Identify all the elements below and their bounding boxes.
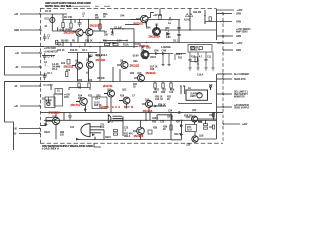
red type labels xyxy=(49,21,161,138)
svg-text:C25 A: C25 A xyxy=(152,117,159,120)
svg-text:2N2102A: 2N2102A xyxy=(149,34,161,38)
transistor Q17 xyxy=(192,116,198,122)
wire QA emitter xyxy=(85,105,87,112)
svg-text:A2: A2 xyxy=(111,34,115,37)
capacitor C8 xyxy=(177,28,180,29)
svg-text:+20: +20 xyxy=(13,129,18,131)
wire base bus y31 xyxy=(52,27,76,31)
delta symbol A1 xyxy=(169,17,172,20)
wire Q17 to B4 xyxy=(194,122,197,136)
transistor Q18 xyxy=(192,136,198,142)
svg-text:CR15: CR15 xyxy=(167,117,174,119)
svg-text:10K: 10K xyxy=(104,35,109,37)
svg-text:2N2905A: 2N2905A xyxy=(49,111,61,115)
wire left loop upper xyxy=(5,47,45,76)
svg-text:R13 2K: R13 2K xyxy=(70,50,78,52)
capacitor C11 xyxy=(205,52,208,68)
svg-text:680: 680 xyxy=(95,17,100,19)
svg-text:ALL CURRENT: ALL CURRENT xyxy=(234,73,250,76)
wire x56 base xyxy=(55,112,57,117)
svg-text:-20: -20 xyxy=(15,67,19,69)
wire drops bottom card xyxy=(64,112,150,120)
transistor Q2 xyxy=(86,29,93,36)
wire x184.7 vertical xyxy=(184,86,186,90)
svg-text:R29: R29 xyxy=(153,92,158,94)
svg-text:.1: .1 xyxy=(82,16,85,18)
svg-text:Q20: Q20 xyxy=(52,117,57,119)
svg-text:A SENSE: A SENSE xyxy=(161,46,171,49)
resistor R13b base feed xyxy=(67,60,70,65)
wire Q18 right xyxy=(198,124,216,139)
transistor Q12 xyxy=(119,97,130,104)
wire Q15 pins vertical xyxy=(122,116,124,121)
svg-text:R12 1K: R12 1K xyxy=(57,50,65,52)
svg-text:S1: S1 xyxy=(57,91,61,93)
svg-text:GRN: GRN xyxy=(236,22,241,24)
wire bus y112 xyxy=(41,111,224,113)
ground G3 xyxy=(205,68,208,70)
svg-text:+28: +28 xyxy=(14,14,19,16)
box B4 relay xyxy=(186,125,197,132)
resistor x171 lower xyxy=(170,125,172,130)
transistor Q14 xyxy=(46,117,60,124)
wire x134 vertical xyxy=(133,29,135,48)
svg-text:CR8: CR8 xyxy=(162,50,167,52)
svg-text:R16 2: R16 2 xyxy=(176,54,183,56)
svg-text:Q10: Q10 xyxy=(137,73,142,75)
resistor R6 small xyxy=(56,40,58,44)
wire resistor drop x155 xyxy=(154,82,156,91)
resistor x63 top xyxy=(62,23,64,28)
wire diode row y53.5 xyxy=(148,53,186,55)
wire x160 top component xyxy=(159,9,161,15)
wire y87.5 link xyxy=(69,88,90,91)
input labels left xyxy=(13,14,20,136)
svg-text:Q12: Q12 xyxy=(122,90,127,92)
diode QA emitter xyxy=(84,108,87,111)
svg-text:2N404A: 2N404A xyxy=(146,71,156,75)
wire resistor drop x163 xyxy=(162,82,164,91)
transistor Q16 D-can power xyxy=(81,124,104,140)
wire x75 drop top xyxy=(74,20,76,24)
svg-text:C21: C21 xyxy=(70,127,75,129)
wire x146 mid vertical xyxy=(145,112,147,120)
resistor R12 xyxy=(66,72,68,77)
svg-text:RTN: RTN xyxy=(46,103,51,105)
svg-text:R32 A: R32 A xyxy=(124,135,131,138)
wire vertical x205 top xyxy=(204,10,206,23)
svg-text:C30: C30 xyxy=(186,145,191,147)
wire bus y139.5 xyxy=(76,139,171,141)
small value labels xyxy=(42,11,214,147)
resistor R23 xyxy=(88,83,90,88)
diode CR5 xyxy=(142,45,146,48)
svg-text:+20: +20 xyxy=(15,53,20,55)
transistor Q7 xyxy=(72,62,83,69)
resistor inside B3 xyxy=(191,47,195,50)
wire input stub y133.5 xyxy=(19,133,41,135)
svg-text:6.2V: 6.2V xyxy=(166,37,171,39)
wire bus y24.5 short xyxy=(125,24,139,26)
wire input stub y30 xyxy=(20,29,42,31)
svg-text:2N1132: 2N1132 xyxy=(96,58,106,62)
wire input stub y67 xyxy=(21,66,42,68)
wire vertical x179 card1 xyxy=(178,20,180,43)
tick marks connector pins xyxy=(40,13,42,135)
svg-text:C13 .01: C13 .01 xyxy=(155,99,164,101)
svg-text:1K: 1K xyxy=(133,86,136,88)
title rule line xyxy=(67,5,110,7)
svg-text:CR5: CR5 xyxy=(96,96,101,98)
svg-text:C8 .1: C8 .1 xyxy=(173,41,179,43)
wire output stub y79 xyxy=(217,78,232,80)
wire y61 link xyxy=(190,61,198,63)
svg-text:R37: R37 xyxy=(176,122,181,124)
svg-text:R6 680: R6 680 xyxy=(61,41,69,43)
card 1 dashed top border xyxy=(40,8,216,10)
svg-text:CR3: CR3 xyxy=(88,56,93,58)
wire Q14 base left xyxy=(46,118,52,123)
svg-text:A1: A1 xyxy=(168,22,172,25)
svg-text:R10 2W: R10 2W xyxy=(193,12,202,14)
test point TP1 xyxy=(210,86,212,90)
wire output stub y43 xyxy=(217,42,233,44)
wire rect top y114.8 xyxy=(157,115,172,121)
diode CR19 xyxy=(76,138,79,141)
wire links y42-y46 xyxy=(63,43,85,47)
wire resistor drop x171 xyxy=(170,82,172,91)
svg-text:2K: 2K xyxy=(167,99,170,101)
capacitor C10 xyxy=(189,52,192,68)
capacitor C2 xyxy=(78,20,82,28)
wire bus y30 right xyxy=(161,29,216,31)
resistor R41 xyxy=(204,127,208,129)
wire vertical x71 xyxy=(70,20,72,32)
svg-text:R26 5K: R26 5K xyxy=(94,105,102,107)
svg-text:C5 .1: C5 .1 xyxy=(47,73,53,75)
svg-text:A2 A3: A2 A3 xyxy=(184,19,191,22)
svg-text:+20: +20 xyxy=(14,106,19,108)
resistor R5 xyxy=(99,24,101,29)
wire y27.5 xyxy=(110,28,134,30)
svg-text:A2: A2 xyxy=(86,72,90,75)
wire x112.5 drop xyxy=(112,29,114,34)
diode CR20 xyxy=(92,134,95,137)
svg-text:R12: R12 xyxy=(66,70,71,72)
svg-text:R36: R36 xyxy=(153,128,158,130)
svg-text:+28V: +28V xyxy=(237,10,243,12)
resistor R10 on bus xyxy=(105,43,110,45)
diode CR8 xyxy=(162,52,166,55)
wire Q7 drop xyxy=(77,69,79,82)
svg-text:R20: R20 xyxy=(130,73,135,75)
ground G2 xyxy=(197,68,200,70)
svg-text:R10 1K: R10 1K xyxy=(85,41,93,43)
svg-text:SENS RTN: SENS RTN xyxy=(234,79,246,81)
svg-text:CR7A: CR7A xyxy=(150,56,157,59)
wire input stub y53 xyxy=(21,52,42,54)
wire Q19 top xyxy=(140,120,142,127)
svg-text:C7: C7 xyxy=(132,96,136,98)
transistor Q13 xyxy=(142,101,153,108)
svg-text:+28 VAC: +28 VAC xyxy=(153,14,162,17)
transistor QA xyxy=(76,98,87,106)
box B1 bias network xyxy=(45,97,55,108)
svg-text:Q9A: Q9A xyxy=(133,60,138,63)
wire x184 meter feeds xyxy=(181,90,185,94)
svg-text:2.2K: 2.2K xyxy=(117,41,122,43)
resistor x160 top xyxy=(159,15,161,20)
B1 internal tick xyxy=(45,97,52,102)
svg-text:0.1 OHM: 0.1 OHM xyxy=(44,85,53,87)
svg-text:.1: .1 xyxy=(44,65,47,67)
wire right vertical x217 lower xyxy=(216,74,218,124)
wire bus y46.5 xyxy=(5,46,139,48)
svg-text:T.P.: T.P. xyxy=(209,85,213,87)
svg-text:R21: R21 xyxy=(178,58,183,60)
svg-text:2N1304: 2N1304 xyxy=(134,134,144,138)
wire bottom bracket x94 xyxy=(94,143,101,147)
wire diode column x181.5 xyxy=(171,120,182,140)
wire y55 stub xyxy=(42,55,55,57)
wire output stub y107 xyxy=(217,106,232,108)
diodes xyxy=(45,14,193,141)
svg-text:SENS SUPPLY: SENS SUPPLY xyxy=(234,108,250,110)
wire Q19 bottom xyxy=(140,135,142,140)
card dashed left border xyxy=(40,9,42,144)
svg-text:-20.6V: -20.6V xyxy=(132,56,139,58)
wire y40.5 xyxy=(103,40,127,42)
svg-text:220: 220 xyxy=(60,135,65,137)
wire vertical x52.3 lamp feed xyxy=(51,14,53,31)
transistor Q4 top xyxy=(136,15,148,22)
wire Q16 pins to bus xyxy=(103,130,105,140)
svg-text:-20: -20 xyxy=(14,86,18,88)
capacitor C9 xyxy=(177,35,180,36)
svg-text:GRN: GRN xyxy=(236,36,241,38)
svg-text:A1: A1 xyxy=(45,25,49,28)
svg-text:2N1711: 2N1711 xyxy=(71,103,81,107)
wire input stub y106 xyxy=(20,105,41,107)
svg-text:2N1711: 2N1711 xyxy=(103,84,113,88)
svg-text:2K: 2K xyxy=(163,129,166,131)
svg-text:+0.05 OHM: +0.05 OHM xyxy=(59,29,71,31)
svg-text:2N1132: 2N1132 xyxy=(130,64,140,68)
svg-text:Q13: Q13 xyxy=(145,100,150,102)
transistor Q1 xyxy=(73,29,86,36)
svg-text:R30: R30 xyxy=(161,92,166,94)
svg-text:.1: .1 xyxy=(47,38,50,40)
diode CR15 xyxy=(179,111,183,114)
wire bus y81.5 xyxy=(5,81,217,83)
capacitor C5 xyxy=(43,73,46,81)
wire Q4 right corner xyxy=(148,13,154,18)
svg-text:Q5: Q5 xyxy=(155,25,159,27)
svg-text:CR22: CR22 xyxy=(44,132,51,134)
wire Q5 top xyxy=(146,20,157,28)
svg-text:+R 300: +R 300 xyxy=(108,43,116,45)
svg-text:R2 1.5K: R2 1.5K xyxy=(64,17,73,19)
box B3 sense resistor xyxy=(188,45,212,53)
resistor x163 xyxy=(162,83,164,88)
wire x181 vertical xyxy=(180,86,182,90)
transistor Q5 power xyxy=(153,28,161,36)
wire Q8 top feed xyxy=(88,53,90,62)
resistor R19 drop xyxy=(197,52,199,68)
svg-text:C6 .1: C6 .1 xyxy=(82,50,88,52)
svg-text:C4A: C4A xyxy=(120,15,125,18)
diode CR3 xyxy=(89,55,93,58)
zener VR2 xyxy=(167,30,170,38)
svg-text:C25: C25 xyxy=(160,122,165,124)
svg-text:10K: 10K xyxy=(78,98,83,100)
svg-text:CR21: CR21 xyxy=(105,137,112,139)
ground G1 xyxy=(189,68,192,70)
svg-text:GRN: GRN xyxy=(14,30,19,32)
svg-text:R11A: R11A xyxy=(123,44,129,47)
wire bus y52 over Q3/Q4 xyxy=(68,52,97,54)
wire input stub y128.5 xyxy=(19,128,41,130)
svg-text:304 NPN: 304 NPN xyxy=(112,105,133,109)
wire vertical x88 xyxy=(88,20,90,29)
meter M1 box with circle xyxy=(186,90,208,100)
resistor x71 top xyxy=(70,23,72,28)
resistor R22 xyxy=(78,83,80,88)
wire output stub y36 xyxy=(217,35,233,37)
diode CR16 xyxy=(180,124,183,127)
wire x205 bottom xyxy=(205,120,207,124)
svg-text:CR5: CR5 xyxy=(146,47,151,49)
wire output stub y124 xyxy=(223,123,240,125)
wire right vertical x216 xyxy=(216,9,218,41)
resistor R32 xyxy=(114,133,118,135)
card dashed right border xyxy=(222,12,224,143)
svg-text:-20: -20 xyxy=(13,134,17,136)
resistor R19 xyxy=(195,57,197,62)
svg-text:2N2102: 2N2102 xyxy=(90,23,100,27)
wire left loop lower xyxy=(5,82,51,151)
circle inside B1 xyxy=(47,102,50,105)
svg-text:CR6: CR6 xyxy=(154,50,159,52)
wire Q8 drop xyxy=(88,68,90,82)
wire Q12 drop xyxy=(126,104,128,109)
svg-text:SENSE A: SENSE A xyxy=(190,48,200,51)
svg-text:C7 4.7: C7 4.7 xyxy=(48,57,55,59)
junction dots xyxy=(55,15,206,121)
svg-text:LOAD REV A: LOAD REV A xyxy=(42,148,59,150)
svg-text:C11: C11 xyxy=(207,57,212,59)
capacitor C4 xyxy=(43,53,46,60)
wire Q2 emitter drop xyxy=(87,35,89,43)
svg-text:R34 1K: R34 1K xyxy=(158,104,166,106)
svg-text:C13: C13 xyxy=(169,92,174,94)
resistor R11 on bus xyxy=(113,43,118,45)
resistor R31 xyxy=(114,130,118,132)
capacitor C6a on link xyxy=(79,86,80,89)
transistor Q8 xyxy=(87,61,94,68)
resistor right column RA xyxy=(212,113,214,117)
wire bus y120 xyxy=(44,119,217,121)
wire y44 to Q6 xyxy=(134,43,141,45)
transistor Q11 xyxy=(104,90,115,97)
svg-text:CR4: CR4 xyxy=(95,55,100,57)
wire y103.5 under meter box xyxy=(178,103,212,105)
diode CR18 xyxy=(45,123,48,126)
box B6 network xyxy=(92,97,107,109)
titles xyxy=(42,1,93,151)
wire diode link y106 xyxy=(150,105,166,107)
svg-text:RTN: RTN xyxy=(64,97,69,99)
diode CR14 xyxy=(155,105,159,108)
wire output stub y74 xyxy=(217,73,232,75)
wire top right bus y10 xyxy=(217,9,235,11)
svg-text:R16 A: R16 A xyxy=(101,54,108,57)
transistors xyxy=(46,15,211,142)
wire vertical x171 bottom card xyxy=(170,112,172,139)
wire Q2 collector y31 xyxy=(93,30,106,32)
capacitors and small parts xyxy=(40,13,225,136)
transistor Q9 xyxy=(117,62,128,69)
wire Q17 right xyxy=(198,118,217,120)
svg-text:DS1: DS1 xyxy=(45,19,50,21)
wire output stub y21.5 xyxy=(205,21,232,23)
capacitor C1 xyxy=(43,34,46,42)
wire bus y19.5 right part xyxy=(146,19,180,21)
transistor Q15 D-can xyxy=(108,115,123,123)
box B2 xyxy=(54,94,63,106)
connector labels right xyxy=(234,10,251,126)
wire input stub y14 xyxy=(20,13,41,15)
transistor Q19 xyxy=(133,127,144,135)
wire x46 diode drop xyxy=(41,123,47,126)
resistor x171 xyxy=(170,83,172,88)
wire vertical x100 xyxy=(99,20,101,32)
svg-text:.1: .1 xyxy=(124,130,127,132)
svg-text:C9 =: C9 = xyxy=(95,99,101,101)
svg-text:REPRO SEAL REV BLM: REPRO SEAL REV BLM xyxy=(45,5,71,8)
svg-text:Q22: Q22 xyxy=(192,110,197,112)
wire Q4 left xyxy=(131,19,141,21)
svg-text:R6A: R6A xyxy=(57,44,62,47)
svg-text:3K: 3K xyxy=(103,16,106,18)
wire vertical x63 top xyxy=(62,14,64,31)
wire vertical x123 bottom card xyxy=(122,120,124,136)
card 2 dashed bottom border xyxy=(40,142,223,144)
wire Q14 emitter down xyxy=(55,125,57,140)
svg-text:+4.5V PWR: +4.5V PWR xyxy=(44,48,56,50)
wire bus y19.5 xyxy=(63,19,138,21)
svg-text:LIMIT: LIMIT xyxy=(190,96,196,98)
svg-text:AMP SENS: AMP SENS xyxy=(236,30,248,33)
wire drops bus81 xyxy=(100,47,120,82)
wire input stub y86 xyxy=(20,85,41,87)
svg-text:C5 1UF: C5 1UF xyxy=(114,27,122,29)
svg-text:C10 A: C10 A xyxy=(197,74,204,77)
wire top bus y14 xyxy=(41,13,68,15)
svg-text:1UF: 1UF xyxy=(100,127,105,129)
resistor right column RB xyxy=(212,125,214,129)
cap C22 to gnd xyxy=(68,113,72,120)
wire x213 column xyxy=(213,112,215,120)
wire Q15 drop xyxy=(111,120,113,122)
ground G4 xyxy=(212,68,215,70)
svg-text:R26: R26 xyxy=(120,96,125,98)
diode CR7 xyxy=(155,52,159,55)
boxes xyxy=(45,15,215,134)
svg-text:A 4.2K: A 4.2K xyxy=(52,63,59,66)
transistor Q6 power xyxy=(141,51,149,59)
wire Q11 drop xyxy=(110,97,112,112)
